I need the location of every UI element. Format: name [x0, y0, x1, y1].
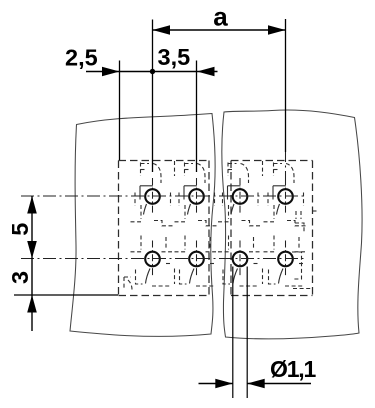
housing outline dashed, right section: [231, 161, 313, 296]
extension line column 2: [196, 61, 198, 173]
pin position 3: [218, 163, 262, 287]
arrow a right: [268, 25, 286, 35]
svg-text:2,5: 2,5: [65, 45, 98, 71]
svg-text:Ø1,1: Ø1,1: [270, 356, 316, 382]
column 4 centre line: [285, 152, 287, 178]
svg-text:3: 3: [7, 271, 33, 284]
arrow 3 bottom outside: [27, 295, 37, 313]
pin position 1: [131, 163, 175, 287]
arrow a left: [153, 25, 171, 35]
svg-text:3,5: 3,5: [158, 44, 191, 70]
extension line housing bottom: [14, 294, 118, 296]
extension line column 4: [285, 19, 287, 152]
extension lines hole diameter: [232, 267, 234, 399]
housing outline dashed, left section: [119, 161, 210, 296]
arrow diameter right: [247, 379, 265, 389]
right PCB board outline: [222, 110, 362, 339]
dimension a line: [153, 29, 286, 31]
divider between positions 1-2: [174, 161, 176, 284]
housing left end detail: [124, 277, 132, 290]
row 1 centre line: [21, 195, 305, 197]
dimension dot at column 1: [150, 69, 155, 74]
extension line column 1: [152, 20, 154, 173]
left PCB board outline: [70, 114, 215, 337]
dimension line diameter right: [247, 383, 311, 385]
svg-text:a: a: [213, 1, 228, 31]
dimension 2,5 / 3,5 line: [86, 71, 218, 73]
svg-text:5: 5: [7, 223, 33, 236]
arrow 5 bottom: [27, 241, 37, 259]
dimension line diameter left: [199, 383, 233, 385]
arrow 3,5: [197, 67, 215, 77]
pin position 4: [264, 163, 308, 287]
arrow 5 top: [27, 196, 37, 214]
extension line housing left edge: [119, 61, 121, 161]
arrow diameter left: [215, 379, 233, 389]
vertical dimension line 5/3: [31, 196, 33, 331]
pin position 2: [175, 163, 219, 287]
housing right end detail: [292, 211, 319, 289]
row 2 centre line: [21, 258, 305, 260]
divider between positions 3-4: [262, 161, 264, 284]
arrow 2,5: [102, 67, 120, 77]
